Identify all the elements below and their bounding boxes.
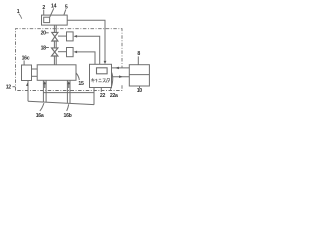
label 16a [36,113,44,119]
arrow into solenoid box 2 [74,51,78,54]
leader of label 16b [67,104,69,111]
label 16c [22,56,30,62]
vent pipe (double line) from module to valves to tank [53,25,55,32]
label 22a [110,93,118,99]
canister box [90,64,112,87]
leader of label 22 [100,88,102,92]
leader dash of label 20 [46,32,49,34]
line A from module to canister [67,20,105,61]
label 5 [65,5,68,11]
svg-text:20: 20 [41,31,47,37]
bottom recirculation line (sloped) [28,101,94,104]
purge line upper (engine to canister) [112,67,130,69]
purge line lower (canister to engine) [112,76,130,78]
svg-text:18: 18 [41,46,47,52]
link valve20 to solenoid box [58,35,67,37]
signal line B [77,36,100,64]
valve 18 (bowtie) [52,48,58,56]
up arrow in pipe 16b [68,84,70,88]
leader of label 1 [19,14,22,19]
connector 16c to tank (passage walls) [32,68,38,70]
bottom return line [43,92,94,94]
inner box 14 [44,17,50,22]
svg-text:8: 8 [137,51,140,57]
engine divider [129,74,149,76]
svg-text:22: 22 [100,93,106,99]
label 20 [41,31,47,37]
leader curve of label 15 [76,73,79,80]
label 10 [137,88,143,94]
solenoid box of valve 20 [67,32,74,41]
label 18 [41,46,47,52]
tank pipe 16a (double line) [42,80,44,102]
leader of label 12 [13,86,16,88]
solenoid box of valve 18 [67,48,74,57]
label 16b [64,113,72,119]
leader curve of label 22a [110,73,112,90]
link valve18 to solenoid box [58,51,67,53]
up arrow on 16c drop line [26,83,28,86]
leader of label 2 [43,10,45,15]
leader of label 5 [64,9,66,15]
leader of label 16a [40,103,44,111]
label 1 [17,9,20,15]
canister text (katakana-like squiggles) [91,78,110,82]
up arrow in pipe 16a [44,84,46,88]
canister drain pipe [93,88,95,105]
arrow into solenoid box 1 [74,35,78,38]
leader of label 10 [139,86,141,88]
arrowhead right on lower purge line [119,75,123,78]
label 15 [78,81,84,87]
label 22 [100,93,106,99]
label 12 [6,85,12,91]
label 8 [137,51,140,57]
svg-text:16b: 16b [64,113,72,119]
leader dash of label 18 [46,47,49,49]
arrowhead down of line A [104,61,107,64]
svg-text:22a: 22a [110,93,118,99]
arrowhead left on upper purge line [115,67,119,70]
dashed enclosure 12 [16,29,123,91]
16c drop line [27,81,29,102]
valve 20 (bowtie) [52,32,58,41]
svg-text:16c: 16c [22,56,30,62]
tank pipe 16b (double line) [66,80,68,103]
signal line C [77,52,95,64]
svg-text:12: 12 [6,85,12,91]
leader of label 14 [50,8,54,17]
engine box 10 [129,65,149,86]
leader of label 16c [23,60,25,64]
svg-text:16a: 16a [36,113,44,119]
canister inner element [97,68,108,74]
sensor box 16c [22,65,32,81]
label 14 [51,4,57,10]
label 2 [42,5,45,11]
leader of label 8 [137,56,139,64]
fuel tank box 15 [37,65,76,81]
svg-text:10: 10 [137,88,143,94]
pump module box 5 [42,15,68,25]
svg-text:15: 15 [78,81,84,87]
